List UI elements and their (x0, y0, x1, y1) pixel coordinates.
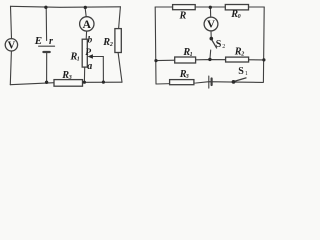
wire: right circuit right wire (262, 7, 265, 82)
wire: left circuit right wire lower (118, 53, 122, 83)
svg-text:2: 2 (222, 44, 225, 50)
wire: V tap stub (209, 7, 211, 17)
resistor R1 (right circuit middle-left) (175, 57, 196, 63)
svg-text:3: 3 (68, 75, 72, 81)
svg-text:2: 2 (240, 52, 244, 58)
node: top junction battery branch (44, 6, 47, 9)
node: bottom junction wiper drop (102, 81, 105, 84)
svg-text:1: 1 (245, 71, 248, 77)
resistor R (right circuit top-left) (173, 5, 196, 10)
voltmeter V (right circuit) (204, 17, 218, 31)
node: V tap on right top wire (209, 6, 212, 9)
wire: V bottom to switch pivot (210, 31, 212, 37)
wire: right circuit middle wire (156, 60, 264, 61)
svg-text:P: P (85, 48, 91, 58)
svg-text:2: 2 (109, 42, 113, 48)
wire: battery branch to bottom (46, 52, 48, 82)
svg-text:a: a (87, 61, 92, 72)
battery long plate (right circuit) (208, 76, 210, 88)
wire: right circuit left wire (154, 7, 157, 84)
wire: right circuit bottom wire (156, 82, 263, 84)
svg-text:b: b (88, 35, 93, 45)
resistor R3 (right circuit bottom) (170, 80, 194, 85)
wire: rheostat terminal a drop (83, 67, 85, 82)
rheostat wiper arrowhead (88, 54, 93, 59)
node: middle wire left end (154, 59, 157, 62)
node: middle wire center (208, 58, 211, 61)
svg-text:E: E (34, 35, 42, 47)
rheostat R1 body (82, 39, 87, 67)
wire: left circuit top wire (11, 6, 121, 7)
node: top junction ammeter branch (84, 6, 87, 9)
node: middle wire right end (262, 58, 265, 61)
voltmeter V (5, 39, 17, 51)
wire: ammeter branch stub (85, 7, 86, 16)
svg-text:A: A (83, 19, 92, 31)
svg-text:S: S (238, 66, 244, 77)
battery cell short thick plate (43, 51, 49, 53)
ammeter A (80, 17, 94, 31)
wire: left circuit right wire upper (119, 7, 121, 29)
svg-text:S: S (216, 39, 222, 50)
resistor R2 (left circuit, right branch box) (115, 29, 121, 53)
wire: S2 lower stub (209, 50, 212, 59)
switch S1 blade (234, 78, 246, 82)
svg-text:V: V (207, 19, 215, 31)
svg-text:3: 3 (185, 74, 189, 80)
svg-text:r: r (49, 36, 53, 47)
svg-text:1: 1 (190, 52, 193, 58)
resistor R0 (right circuit top-right) (225, 5, 248, 10)
wire: ammeter to rheostat (85, 31, 87, 39)
wire: battery branch from top (45, 7, 47, 40)
resistor R2 (right circuit middle-right) (226, 57, 249, 62)
rheostat wiper P line (92, 56, 103, 58)
switch S2 blade (212, 40, 217, 48)
wire: left circuit left wire lower (10, 51, 11, 85)
battery short thick plate (right circuit) (211, 79, 213, 86)
svg-text:R: R (179, 10, 187, 21)
switch S2 pivot dot (210, 37, 214, 41)
wire: right circuit top wire (155, 6, 264, 8)
resistor R3 (left circuit bottom box) (54, 80, 83, 87)
battery cell E,r long plate (39, 45, 55, 47)
node: bottom junction terminal a (83, 81, 86, 84)
switch S1 pivot dot (232, 80, 236, 84)
svg-text:1: 1 (77, 57, 80, 63)
wire: left circuit bottom wire (10, 82, 122, 85)
rheostat wiper drop wire (102, 57, 104, 83)
node: bottom junction battery branch (45, 81, 48, 84)
wire: left circuit left wire upper (11, 6, 12, 38)
svg-text:V: V (8, 41, 16, 52)
svg-text:0: 0 (238, 14, 241, 20)
